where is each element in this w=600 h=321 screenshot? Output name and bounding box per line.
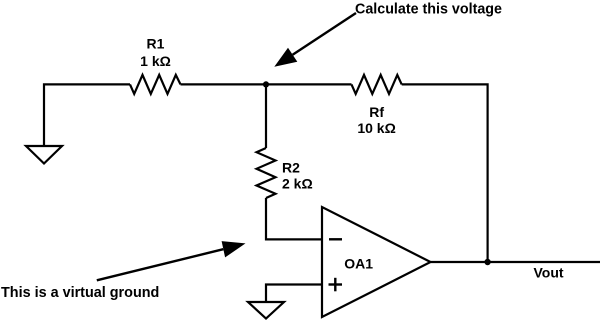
resistor Rf	[352, 75, 402, 94]
op-amp OA1	[322, 207, 431, 317]
wire: node A to Rf	[266, 83, 352, 85]
arrow to node A	[274, 13, 356, 67]
wire: R2 branch down from node A	[265, 84, 267, 148]
arrow to virtual ground	[97, 241, 246, 280]
wire: left horizontal segment	[44, 84, 130, 146]
wire: output	[431, 261, 600, 263]
svg-text:1 kΩ: 1 kΩ	[140, 53, 171, 69]
wire: non-inverting input to ground	[266, 285, 322, 303]
svg-text:Calculate this voltage: Calculate this voltage	[355, 2, 502, 18]
pin plus	[329, 278, 343, 292]
wire: Rf to right vertical feedback	[402, 84, 488, 262]
wire: R2 to inverting input	[266, 198, 322, 239]
svg-text:10 kΩ: 10 kΩ	[357, 120, 395, 136]
resistor R2	[257, 148, 276, 198]
svg-text:OA1: OA1	[344, 256, 373, 272]
svg-text:This is a virtual ground: This is a virtual ground	[1, 285, 159, 301]
resistor R1	[130, 75, 181, 94]
svg-text:Vout: Vout	[534, 265, 564, 281]
svg-text:R1: R1	[147, 36, 165, 52]
wire: R1 to node A	[181, 83, 267, 85]
svg-text:Rf: Rf	[369, 104, 384, 120]
pin minus	[329, 238, 342, 240]
ground (op-amp +)	[248, 302, 284, 319]
node A (junction dot)	[263, 81, 269, 87]
ground (left)	[26, 146, 62, 164]
svg-text:R2: R2	[282, 160, 300, 176]
node: output junction dot	[484, 259, 490, 265]
svg-text:2 kΩ: 2 kΩ	[282, 176, 313, 192]
